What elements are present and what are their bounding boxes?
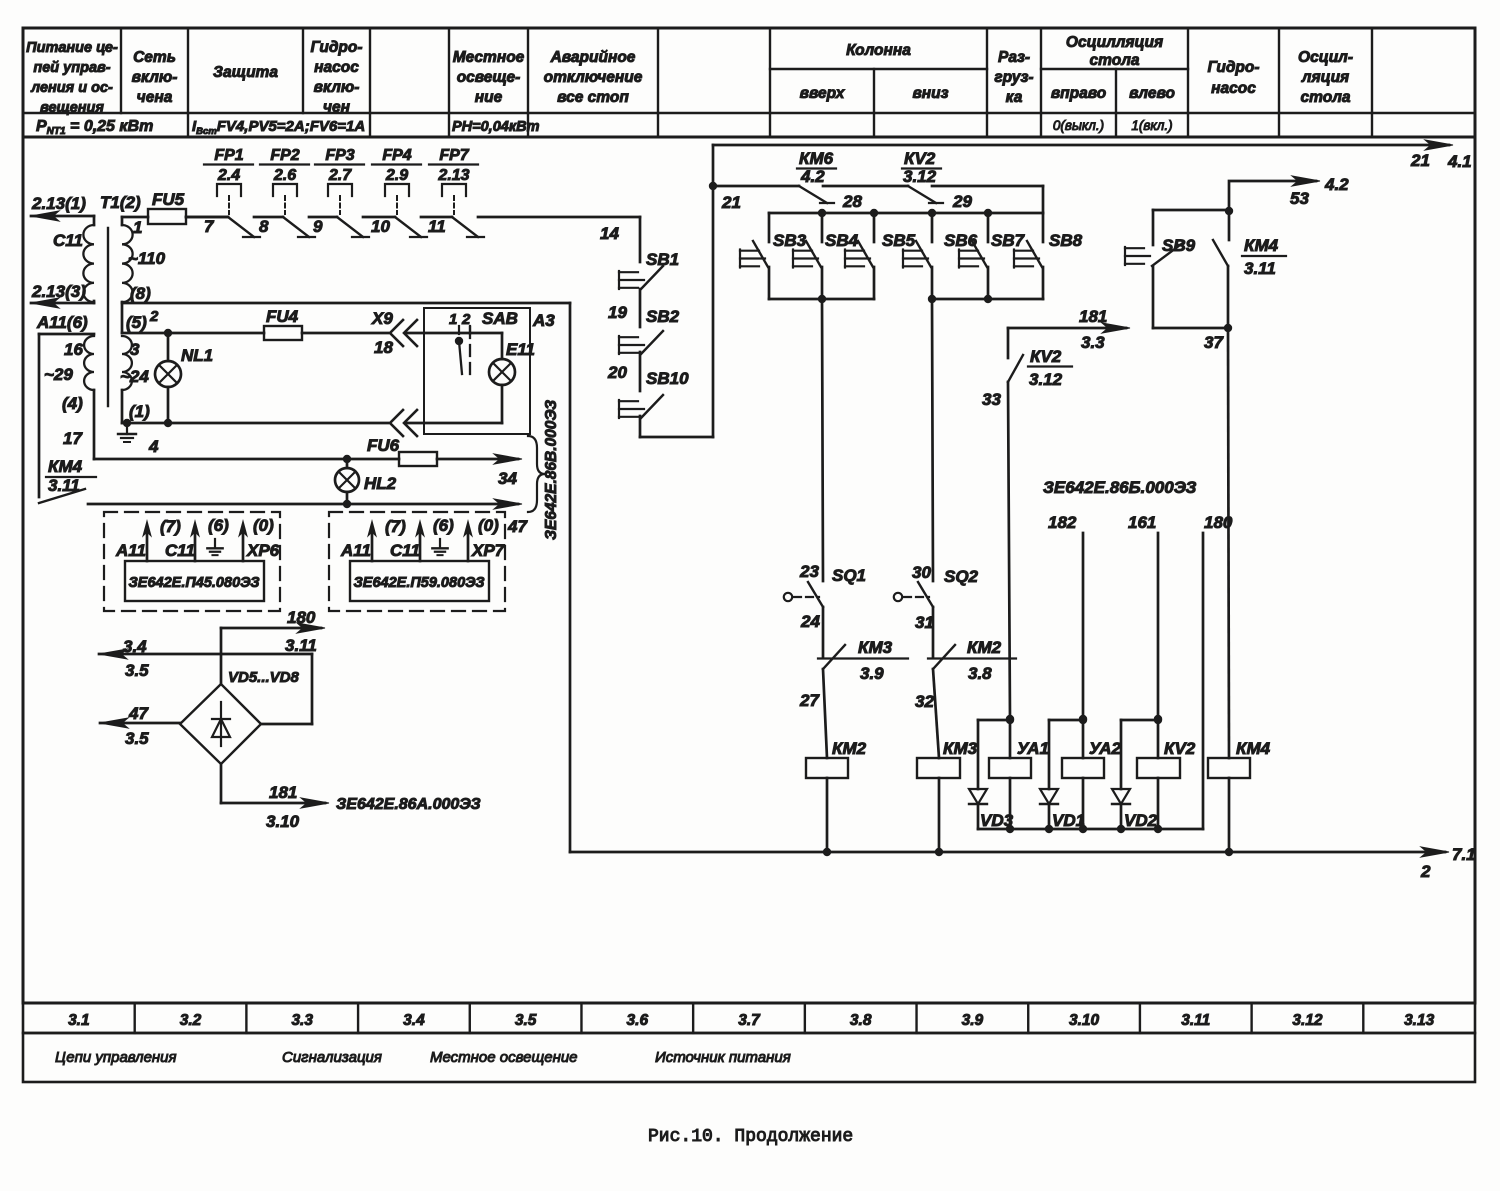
svg-text:А11(6): А11(6)	[36, 313, 88, 332]
svg-text:КМ6: КМ6	[799, 149, 834, 168]
svg-text:32: 32	[915, 692, 934, 711]
svg-text:ХР7: ХР7	[471, 541, 506, 560]
svg-text:SB5: SB5	[882, 231, 916, 250]
svg-text:3.12: 3.12	[1292, 1012, 1323, 1029]
svg-text:ЗЕ642Е.86Б.000ЭЗ: ЗЕ642Е.86Б.000ЭЗ	[1043, 478, 1197, 497]
svg-text:3.13: 3.13	[1404, 1012, 1435, 1029]
svg-text:Осцил-: Осцил-	[1298, 49, 1353, 66]
svg-text:34: 34	[498, 469, 517, 488]
svg-text:3.12: 3.12	[1029, 370, 1063, 389]
svg-text:28: 28	[842, 192, 862, 211]
svg-text:Т1(2): Т1(2)	[100, 193, 141, 212]
svg-text:Местное: Местное	[453, 49, 525, 66]
svg-text:3.11: 3.11	[285, 636, 317, 655]
svg-text:182: 182	[1048, 513, 1077, 532]
svg-text:SB8: SB8	[1049, 231, 1083, 250]
svg-text:Е11: Е11	[506, 340, 535, 359]
svg-text:(5): (5)	[126, 313, 147, 332]
svg-text:3.8: 3.8	[968, 664, 992, 683]
svg-text:чена: чена	[137, 89, 173, 106]
svg-text:Источник питания: Источник питания	[655, 1049, 791, 1066]
svg-text:3.2: 3.2	[180, 1012, 202, 1029]
svg-text:SB3: SB3	[773, 231, 807, 250]
svg-text:А11: А11	[340, 541, 371, 560]
svg-text:3.9: 3.9	[860, 664, 884, 683]
svg-text:Местное освещение: Местное освещение	[430, 1049, 578, 1066]
svg-text:Колонна: Колонна	[846, 42, 911, 59]
svg-text:стола: стола	[1090, 52, 1140, 69]
svg-text:11: 11	[428, 217, 446, 236]
svg-text:181: 181	[269, 783, 297, 802]
svg-text:FP1: FP1	[214, 147, 243, 164]
svg-text:FU5: FU5	[152, 190, 185, 209]
svg-text:24: 24	[800, 612, 820, 631]
svg-text:33: 33	[982, 390, 1001, 409]
svg-text:РNT1 = 0,25 кВт: РNT1 = 0,25 кВт	[36, 118, 153, 137]
svg-text:2.6: 2.6	[273, 167, 296, 184]
svg-text:16: 16	[64, 340, 83, 359]
svg-text:насос: насос	[314, 59, 359, 76]
svg-text:КМ3: КМ3	[943, 739, 978, 758]
svg-text:3.3: 3.3	[291, 1012, 313, 1029]
svg-text:4.2: 4.2	[1324, 175, 1349, 194]
svg-text:(1): (1)	[129, 402, 150, 421]
svg-text:3.8: 3.8	[850, 1012, 872, 1029]
svg-text:2.13: 2.13	[437, 167, 469, 184]
svg-text:влево: влево	[1129, 85, 1175, 102]
svg-text:3.1: 3.1	[68, 1012, 90, 1029]
svg-text:3.10: 3.10	[1069, 1012, 1100, 1029]
svg-text:Х9: Х9	[371, 309, 393, 328]
svg-text:23: 23	[799, 562, 819, 581]
svg-text:ЗЕ642Е.П59.080ЭЗ: ЗЕ642Е.П59.080ЭЗ	[353, 575, 484, 591]
svg-text:(4): (4)	[62, 394, 83, 413]
svg-text:3.11: 3.11	[48, 476, 80, 495]
svg-text:(7): (7)	[385, 517, 406, 536]
svg-text:Аварийное: Аварийное	[550, 49, 636, 66]
svg-text:FU6: FU6	[367, 436, 400, 455]
svg-text:С11: С11	[390, 541, 420, 560]
svg-text:17: 17	[63, 429, 83, 448]
svg-text:УА1: УА1	[1017, 739, 1049, 758]
svg-text:вниз: вниз	[912, 85, 948, 102]
svg-text:7.1: 7.1	[1452, 845, 1476, 864]
svg-text:VD5...VD8: VD5...VD8	[228, 669, 300, 686]
svg-text:FP7: FP7	[439, 147, 469, 164]
svg-text:2: 2	[1420, 862, 1431, 881]
svg-text:Сеть: Сеть	[133, 49, 176, 66]
svg-text:SB9: SB9	[1162, 236, 1196, 255]
svg-text:КV2: КV2	[1030, 347, 1062, 366]
svg-text:21: 21	[1410, 151, 1430, 170]
svg-text:2.7: 2.7	[328, 167, 352, 184]
svg-text:SQ2: SQ2	[944, 567, 979, 586]
svg-text:37: 37	[1204, 333, 1224, 352]
svg-text:HL2: HL2	[364, 474, 397, 493]
svg-text:29: 29	[952, 192, 972, 211]
svg-text:КМ4: КМ4	[48, 457, 83, 476]
svg-text:20: 20	[607, 363, 627, 382]
svg-text:КМ4: КМ4	[1244, 236, 1279, 255]
svg-text:30: 30	[912, 563, 931, 582]
svg-text:SB10: SB10	[646, 369, 689, 388]
svg-text:3.11: 3.11	[1181, 1012, 1210, 1029]
svg-text:3.9: 3.9	[962, 1012, 984, 1029]
svg-text:SQ1: SQ1	[832, 566, 866, 585]
svg-text:вправо: вправо	[1051, 85, 1106, 102]
svg-text:Сигнализация: Сигнализация	[282, 1049, 382, 1066]
svg-text:чен: чен	[323, 99, 351, 116]
svg-text:3.6: 3.6	[627, 1012, 649, 1029]
svg-text:0(выкл.): 0(выкл.)	[1053, 118, 1104, 133]
svg-text:3.4: 3.4	[403, 1012, 425, 1029]
svg-text:ХР6: ХР6	[246, 541, 280, 560]
svg-text:3.7: 3.7	[738, 1012, 761, 1029]
svg-text:8: 8	[259, 217, 269, 236]
svg-text:КМ4: КМ4	[1236, 739, 1271, 758]
svg-text:(8): (8)	[130, 284, 151, 303]
svg-text:(7): (7)	[160, 517, 181, 536]
svg-text:КV2: КV2	[1164, 739, 1196, 758]
svg-text:Гидро-: Гидро-	[1207, 59, 1259, 76]
svg-text:2.9: 2.9	[385, 167, 408, 184]
svg-text:КМ3: КМ3	[858, 638, 893, 657]
svg-text:3.5: 3.5	[125, 661, 149, 680]
svg-text:вещения: вещения	[40, 100, 104, 116]
svg-text:2.13(1): 2.13(1)	[31, 194, 86, 213]
svg-text:груз-: груз-	[994, 69, 1033, 86]
svg-text:3.12: 3.12	[903, 167, 937, 186]
svg-text:SB1: SB1	[646, 250, 679, 269]
svg-text:FP4: FP4	[382, 147, 411, 164]
svg-text:FP3: FP3	[325, 147, 354, 164]
svg-text:53: 53	[1290, 189, 1309, 208]
svg-text:Питание це-: Питание це-	[26, 40, 118, 56]
svg-text:3.10: 3.10	[266, 812, 300, 831]
svg-text:ляция: ляция	[1301, 69, 1349, 86]
svg-text:КМ2: КМ2	[967, 638, 1002, 657]
svg-text:освеще-: освеще-	[457, 69, 521, 86]
svg-text:вверх: вверх	[800, 85, 846, 102]
svg-text:Раз-: Раз-	[998, 49, 1030, 66]
svg-text:3.5: 3.5	[125, 729, 149, 748]
svg-text:SB4: SB4	[825, 231, 859, 250]
svg-text:УА2: УА2	[1089, 739, 1122, 758]
svg-text:10: 10	[371, 217, 390, 236]
svg-text:Гидро-: Гидро-	[310, 39, 362, 56]
svg-text:7: 7	[204, 217, 215, 236]
svg-text:Рис.10. Продолжение: Рис.10. Продолжение	[648, 1127, 853, 1147]
svg-text:47: 47	[507, 517, 528, 536]
svg-text:FU4: FU4	[266, 307, 299, 326]
svg-text:4.2: 4.2	[800, 167, 825, 186]
svg-text:1(вкл.): 1(вкл.)	[1131, 118, 1172, 133]
svg-text:19: 19	[608, 303, 627, 322]
svg-text:2: 2	[149, 308, 159, 325]
svg-text:180: 180	[287, 608, 316, 627]
svg-text:РН=0,04кВт: РН=0,04кВт	[452, 119, 540, 135]
svg-text:18: 18	[374, 338, 393, 357]
svg-text:Цепи управления: Цепи управления	[55, 1049, 177, 1066]
svg-text:КV2: КV2	[904, 149, 936, 168]
svg-text:VD2: VD2	[1124, 811, 1158, 830]
svg-text:(0): (0)	[253, 516, 274, 535]
svg-text:С11: С11	[165, 541, 195, 560]
svg-text:161: 161	[1128, 513, 1156, 532]
svg-text:пей управ-: пей управ-	[33, 60, 110, 76]
svg-text:NL1: NL1	[181, 346, 213, 365]
svg-text:ЗЕ642Е.86А.000ЭЗ: ЗЕ642Е.86А.000ЭЗ	[336, 796, 481, 813]
svg-text:все стоп: все стоп	[557, 89, 629, 106]
svg-text:А3: А3	[532, 311, 555, 330]
svg-text:3.5: 3.5	[515, 1012, 537, 1029]
svg-text:вклю-: вклю-	[132, 69, 178, 86]
svg-text:2.13(3): 2.13(3)	[31, 282, 86, 301]
svg-text:31: 31	[915, 613, 934, 632]
svg-text:181: 181	[1079, 307, 1107, 326]
svg-text:21: 21	[721, 193, 741, 212]
svg-text:ние: ние	[475, 89, 503, 106]
svg-text:отключение: отключение	[544, 69, 643, 86]
svg-text:стола: стола	[1301, 89, 1351, 106]
svg-text:ка: ка	[1006, 89, 1023, 106]
svg-text:(6): (6)	[208, 516, 229, 535]
svg-text:3.4: 3.4	[123, 637, 147, 656]
svg-text:насос: насос	[1211, 80, 1256, 97]
svg-text:4: 4	[148, 437, 159, 456]
svg-text:3.3: 3.3	[1081, 333, 1105, 352]
svg-text:27: 27	[799, 691, 820, 710]
svg-text:(6): (6)	[433, 516, 454, 535]
svg-text:Осцилляция: Осцилляция	[1066, 34, 1163, 51]
svg-text:3.11: 3.11	[1244, 259, 1276, 278]
svg-text:2.4: 2.4	[217, 167, 240, 184]
svg-text:~29: ~29	[44, 365, 73, 384]
svg-text:IВстFV4,PV5=2А;FV6=1А: IВстFV4,PV5=2А;FV6=1А	[192, 118, 365, 137]
svg-text:ЗЕ642Е.П45.080ЭЗ: ЗЕ642Е.П45.080ЭЗ	[128, 575, 259, 591]
svg-text:1: 1	[133, 218, 142, 237]
svg-text:2: 2	[461, 311, 471, 328]
svg-text:ления и ос-: ления и ос-	[30, 80, 113, 96]
svg-text:~110: ~110	[128, 249, 166, 268]
svg-text:Защита: Защита	[213, 64, 278, 81]
svg-text:(0): (0)	[478, 516, 499, 535]
svg-text:SB2: SB2	[646, 307, 680, 326]
svg-text:вклю-: вклю-	[314, 79, 360, 96]
svg-text:SB7: SB7	[991, 231, 1026, 250]
svg-text:А11: А11	[115, 541, 146, 560]
svg-text:1: 1	[449, 311, 457, 328]
svg-text:~24: ~24	[120, 367, 149, 386]
svg-text:9: 9	[313, 217, 323, 236]
svg-text:С11: С11	[53, 231, 83, 250]
svg-text:14: 14	[600, 224, 619, 243]
svg-text:47: 47	[128, 704, 149, 723]
svg-text:4.1: 4.1	[1447, 152, 1472, 171]
svg-text:SAB: SAB	[482, 309, 518, 328]
svg-text:ЗЕ642Е.86В.000ЭЗ: ЗЕ642Е.86В.000ЭЗ	[543, 400, 560, 540]
svg-text:КМ2: КМ2	[832, 739, 867, 758]
svg-text:FP2: FP2	[270, 147, 299, 164]
